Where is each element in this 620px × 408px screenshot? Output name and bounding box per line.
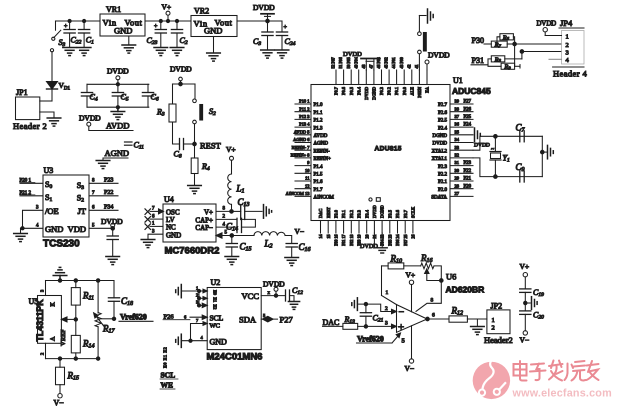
svg-text:P2.0: P2.0 — [438, 188, 448, 193]
watermark glyph 3 — [549, 361, 563, 381]
svg-text:42: 42 — [406, 65, 411, 69]
svg-text:1: 1 — [152, 222, 155, 227]
svg-text:DVDD: DVDD — [372, 205, 377, 218]
capacitor C12 — [286, 286, 304, 302]
svg-text:DVDD: DVDD — [263, 279, 285, 288]
svg-text:4: 4 — [566, 57, 570, 64]
resistor R10 — [382, 254, 421, 269]
sideways ground at op-amp pin2 — [352, 298, 358, 311]
svg-text:JP1: JP1 — [16, 88, 28, 97]
svg-text:50 P05: 50 P05 — [346, 57, 351, 68]
U5 pin2 stub — [40, 343, 46, 358]
svg-text:WE: WE — [161, 381, 174, 390]
svg-text:2: 2 — [223, 215, 226, 220]
svg-text:P1.5: P1.5 — [314, 173, 324, 178]
svg-text:P20 1: P20 1 — [20, 179, 32, 184]
svg-text:36: 36 — [455, 122, 460, 127]
svg-text:P2.6: P2.6 — [438, 111, 448, 116]
U3 pin6 wire P34 — [89, 205, 118, 211]
svg-text:49 P04: 49 P04 — [353, 57, 358, 68]
svg-text:GND: GND — [45, 224, 63, 234]
wire node to JP4 pin3 — [520, 50, 561, 59]
svg-text:P22: P22 — [464, 169, 472, 174]
svg-text:P0.3: P0.3 — [379, 86, 384, 95]
svg-text:DVDD: DVDD — [428, 51, 450, 60]
svg-text:WC: WC — [210, 323, 220, 330]
ground above U5 rail — [53, 267, 67, 280]
capacitor C7 — [516, 123, 526, 142]
svg-text:V+: V+ — [226, 145, 236, 154]
svg-text:27: 27 — [455, 191, 460, 196]
svg-text:A: A — [51, 336, 57, 341]
wire DVDD rail to R3 and S2 — [173, 84, 196, 104]
svg-text:V+: V+ — [406, 271, 416, 280]
svg-text:P37 25: P37 25 — [403, 235, 408, 246]
svg-text:8: 8 — [223, 207, 226, 212]
capacitor C14 with loop CAP+ CAP- — [216, 215, 255, 233]
svg-text:SDA: SDA — [239, 314, 257, 324]
svg-text:P1.0: P1.0 — [314, 103, 324, 108]
svg-text:P32 18: P32 18 — [349, 235, 354, 246]
svg-text:P11 2: P11 2 — [299, 106, 309, 111]
capacitor C5 — [112, 84, 129, 107]
svg-text:XTAL2: XTAL2 — [432, 149, 448, 154]
svg-text:8: 8 — [431, 298, 434, 304]
svg-text:2: 2 — [566, 42, 569, 49]
svg-text:CAP−: CAP− — [195, 224, 213, 232]
ground below U3 VDD cap — [106, 257, 120, 265]
svg-text:35: 35 — [455, 129, 460, 134]
svg-text:2: 2 — [492, 324, 495, 331]
svg-text:U4: U4 — [164, 195, 174, 204]
net label DVDD below U1 — [360, 233, 378, 250]
wire XTAL1 to crystal rail — [473, 158, 542, 179]
capacitor C18 — [98, 281, 133, 319]
svg-text:P21: P21 — [464, 177, 472, 182]
svg-text:DAC: DAC — [318, 209, 323, 218]
svg-text:DVDD: DVDD — [107, 67, 129, 76]
capacitor C15 — [226, 236, 251, 257]
svg-text:DVDD: DVDD — [343, 51, 362, 58]
ground at U3 — [14, 234, 28, 242]
svg-text:P2.3: P2.3 — [438, 165, 448, 170]
svg-text:51 P06: 51 P06 — [338, 57, 343, 68]
svg-text:SCLK: SCLK — [411, 206, 416, 218]
svg-text:3: 3 — [385, 321, 388, 327]
U3 pin3 wire /OE — [23, 206, 44, 229]
capacitor C22 — [64, 19, 82, 47]
svg-text:P10 1: P10 1 — [299, 99, 309, 104]
watermark glyph 4 — [565, 361, 586, 381]
svg-text:P30: P30 — [472, 36, 484, 45]
svg-text:V−: V− — [520, 336, 530, 345]
svg-text:P0.2: P0.2 — [387, 87, 392, 95]
svg-text:4: 4 — [201, 335, 204, 340]
svg-text:P20: P20 — [464, 184, 472, 189]
svg-text:GND: GND — [210, 338, 228, 347]
svg-text:P27: P27 — [280, 315, 293, 325]
U6 pin1 wire — [382, 266, 397, 305]
svg-text:6: 6 — [152, 214, 155, 219]
svg-text:P2.1: P2.1 — [438, 180, 448, 185]
U4 pin7 OSC with no-connect cross — [145, 207, 164, 215]
svg-text:3: 3 — [40, 289, 45, 292]
svg-text:P1.6: P1.6 — [314, 180, 324, 185]
svg-text:E0 E1 E2: E0 E1 E2 — [163, 347, 168, 368]
capacitor C16 — [286, 242, 310, 258]
svg-text:C18: C18 — [121, 296, 133, 307]
svg-text:26: 26 — [411, 235, 416, 239]
U5 VREF pin — [60, 317, 76, 346]
svg-text:VDD: VDD — [68, 224, 86, 234]
svg-text:P3.4: P3.4 — [364, 209, 369, 218]
svg-text:PSEN: PSEN — [417, 86, 422, 98]
svg-text:U1: U1 — [453, 76, 463, 85]
watermark glyph 1 — [514, 361, 527, 381]
svg-text:C6: C6 — [151, 93, 159, 103]
svg-text:C4: C4 — [90, 93, 98, 103]
regulator VR1 — [100, 5, 145, 36]
svg-text:12: 12 — [305, 183, 310, 188]
resistor R13 — [343, 315, 397, 329]
svg-text:3: 3 — [152, 229, 155, 234]
svg-text:P30 16: P30 16 — [334, 235, 339, 246]
power DVDD node above R3 S2 — [170, 65, 192, 86]
ground below U1 — [377, 233, 387, 253]
svg-text:DVDD: DVDD — [79, 114, 101, 123]
U1 bottom pins — [318, 205, 415, 245]
wire XTAL2 to crystal rail — [473, 135, 542, 151]
svg-text:C20: C20 — [533, 311, 544, 321]
svg-text:32: 32 — [455, 153, 460, 158]
svg-text:K: K — [51, 302, 57, 307]
inductor L2 — [232, 232, 285, 250]
svg-text:P1.2: P1.2 — [314, 119, 324, 124]
ground below C24 — [275, 50, 289, 58]
svg-text:REST: REST — [200, 141, 222, 151]
resistor R7 — [491, 41, 516, 49]
U3 pin1 wire P20 — [20, 179, 44, 184]
svg-text:Y1: Y1 — [503, 154, 510, 164]
svg-text:P26: P26 — [164, 313, 175, 320]
svg-text:R16: R16 — [420, 253, 433, 264]
wire U5 bottom rail — [46, 357, 100, 360]
U5 pin3 stub — [40, 281, 46, 296]
capacitor C1 — [79, 19, 95, 47]
svg-text:15: 15 — [326, 235, 331, 239]
svg-text:DVDD: DVDD — [433, 142, 448, 147]
ground below C3 — [261, 50, 275, 58]
svg-text:2: 2 — [40, 353, 45, 355]
svg-text:DGND: DGND — [380, 205, 385, 218]
svg-text:DVDD: DVDD — [537, 21, 557, 28]
ground at AGND — [96, 161, 110, 169]
svg-text:ADU815: ADU815 — [375, 146, 402, 153]
wire input rail to VR1 — [56, 20, 101, 22]
svg-text:P2.5: P2.5 — [438, 119, 448, 124]
connector JP4 — [553, 18, 588, 79]
svg-text:GND: GND — [114, 26, 132, 36]
ground at U4 — [141, 240, 155, 248]
svg-text:6: 6 — [432, 313, 435, 319]
svg-text:C15: C15 — [240, 242, 252, 253]
resistor R3 — [156, 104, 176, 122]
ground below C12 — [288, 302, 299, 310]
svg-text:E2: E2 — [213, 304, 218, 309]
svg-text:R8: R8 — [494, 56, 502, 63]
svg-text:P25: P25 — [464, 115, 472, 120]
svg-text:R15: R15 — [67, 371, 80, 382]
wire JP1 pin1 — [40, 100, 52, 102]
svg-text:10: 10 — [305, 168, 310, 173]
ground below C2 — [170, 48, 184, 56]
svg-text:AVDD: AVDD — [106, 121, 129, 131]
sideways ground at C19 C20 — [532, 297, 538, 310]
svg-text:P1.3: P1.3 — [314, 126, 324, 131]
ground below C15 — [225, 257, 239, 265]
U2 pin7 WC wire — [191, 318, 208, 341]
svg-text:R17: R17 — [102, 324, 116, 335]
svg-text:P0.7: P0.7 — [334, 86, 339, 95]
svg-text:7: 7 — [196, 318, 199, 323]
svg-text:C22: C22 — [71, 36, 82, 46]
svg-text:S3: S3 — [77, 181, 84, 191]
potentiometer R16 — [420, 253, 441, 281]
U4 pin1 NC with no-connect cross — [145, 222, 163, 230]
svg-text:43 P00: 43 P00 — [399, 57, 404, 68]
ground below VR1 — [122, 45, 136, 53]
svg-text:TCS230: TCS230 — [43, 239, 80, 250]
svg-text:REFIN-: REFIN- — [314, 149, 330, 154]
wire cap bank rails — [87, 83, 149, 109]
svg-text:C21: C21 — [373, 314, 384, 324]
crystal Y1 — [490, 136, 510, 176]
wire P30 node down — [514, 44, 516, 66]
capacitor C11 — [125, 141, 145, 151]
svg-text:P1.1: P1.1 — [314, 111, 324, 116]
svg-text:AGND 6: AGND 6 — [293, 137, 310, 142]
svg-text:P3.7: P3.7 — [403, 209, 408, 218]
sideways ground at U2 pin4 — [176, 334, 182, 347]
svg-text:VCC: VCC — [242, 291, 260, 301]
resistor R14 — [71, 319, 94, 358]
svg-text:JT: JT — [78, 206, 87, 216]
svg-text:C8: C8 — [174, 150, 182, 160]
chip U3 TCS230 — [43, 166, 89, 250]
net label V- — [285, 227, 304, 244]
svg-text:14: 14 — [318, 235, 323, 239]
net label SCL — [160, 371, 178, 380]
svg-text:C2: C2 — [180, 36, 188, 46]
resistor R15 — [56, 359, 80, 394]
svg-text:EA: EA — [425, 86, 430, 93]
power DVDD node at EA pin — [425, 51, 450, 71]
svg-text:GND: GND — [166, 232, 181, 240]
svg-text:P0.1: P0.1 — [394, 87, 399, 95]
ground below C22 — [63, 48, 77, 56]
svg-text:C12: C12 — [292, 286, 303, 296]
ground below C5 — [111, 107, 125, 119]
svg-text:P0.6: P0.6 — [341, 86, 346, 95]
svg-text:AD620BR: AD620BR — [446, 285, 485, 295]
U4 pin6 LV with no-connect cross — [145, 214, 163, 222]
svg-text:S2: S2 — [209, 107, 216, 117]
resistor R4 — [191, 144, 210, 186]
svg-text:L1: L1 — [236, 184, 245, 195]
svg-text:U3: U3 — [44, 166, 54, 175]
node V+ at C19 — [520, 262, 530, 289]
capacitor at U3 VDD — [107, 228, 118, 256]
capacitor C8 — [174, 139, 195, 160]
diode VD1 — [47, 81, 71, 101]
svg-text:1: 1 — [566, 34, 569, 41]
U3 pin4 wire GND — [21, 224, 44, 234]
svg-text:3: 3 — [566, 49, 569, 56]
U1 right pins 27-39 — [431, 99, 473, 201]
svg-text:P0.5: P0.5 — [349, 86, 354, 95]
svg-text:P21 2: P21 2 — [20, 191, 32, 196]
svg-text:www.elecfans.com: www.elecfans.com — [512, 388, 612, 400]
ground below C23 — [154, 48, 168, 56]
svg-text:C16: C16 — [299, 242, 311, 253]
resistor R12 — [449, 306, 487, 323]
svg-text:V+: V+ — [520, 262, 530, 271]
svg-text:1: 1 — [492, 317, 495, 324]
capacitor C19 — [520, 288, 544, 311]
svg-text:P34: P34 — [104, 205, 113, 211]
ground right of C13 — [264, 205, 272, 219]
svg-text:P0.0: P0.0 — [402, 86, 407, 95]
svg-text:P22: P22 — [104, 190, 113, 196]
chip U2 M24C01MN6 — [207, 278, 263, 363]
svg-text:MC7660DR2: MC7660DR2 — [165, 246, 220, 257]
node V+ above L1 — [226, 145, 236, 174]
node V+ above op-amp — [406, 271, 416, 312]
U6 labels — [446, 272, 485, 295]
svg-text:DVDD: DVDD — [474, 143, 490, 149]
svg-text:TL4311PK: TL4311PK — [35, 299, 45, 342]
svg-text:Header2: Header2 — [484, 335, 513, 345]
ground below C1 — [77, 48, 91, 56]
svg-text:P26: P26 — [464, 107, 472, 112]
U3 pin8 wire P23 — [89, 178, 118, 184]
svg-text:C19: C19 — [533, 288, 544, 298]
wire R16 to pin8 — [416, 266, 443, 312]
watermark glyph 5 — [587, 361, 599, 380]
switch S1 at U1 top right — [418, 16, 427, 71]
svg-text:S0: S0 — [45, 180, 52, 190]
wire JP4 pin1 — [545, 35, 561, 37]
svg-text:29: 29 — [455, 176, 460, 181]
svg-text:SCL: SCL — [210, 314, 224, 323]
capacitor C3 — [253, 21, 273, 50]
svg-text:DVDD: DVDD — [101, 217, 123, 226]
sideways ground at U1 pin35 DGND — [475, 128, 481, 142]
power DVDD node — [253, 3, 275, 23]
svg-text:VR1: VR1 — [106, 5, 121, 14]
svg-text:+: + — [398, 322, 404, 334]
svg-text:DGND: DGND — [372, 87, 377, 100]
svg-text:AGND: AGND — [314, 142, 329, 147]
wire VR1 GND — [128, 36, 130, 45]
svg-text:VD1: VD1 — [59, 81, 71, 92]
svg-text:XTAL1: XTAL1 — [432, 157, 448, 162]
sideways ground right of crystal — [548, 145, 554, 158]
svg-text:P3.1: P3.1 — [341, 210, 346, 218]
U3 pin2 wire P21 — [20, 191, 44, 196]
svg-text:DVDD: DVDD — [170, 65, 192, 74]
ground between R12 and JP2 — [471, 319, 485, 335]
svg-text:7: 7 — [152, 207, 155, 212]
wire VR2 GND — [213, 37, 215, 54]
svg-text:REFIN+: REFIN+ — [314, 157, 331, 162]
net label P26 to pin6 — [163, 313, 207, 320]
svg-text:P1.4: P1.4 — [314, 165, 324, 170]
svg-text:44 P01: 44 P01 — [391, 57, 396, 68]
svg-text:P2.4: P2.4 — [438, 126, 448, 131]
switch S3 — [50, 21, 65, 52]
ground below C16 — [285, 258, 299, 266]
svg-text:6: 6 — [184, 314, 187, 319]
svg-text:+: + — [284, 25, 288, 31]
potentiometer R17 — [94, 281, 116, 359]
svg-text:R10: R10 — [390, 254, 403, 265]
net label P31 — [471, 56, 488, 65]
svg-text:NC: NC — [166, 224, 176, 232]
svg-text:C5: C5 — [121, 93, 129, 103]
svg-text:DVDD: DVDD — [253, 3, 275, 12]
node L1 C13 junction — [230, 210, 234, 214]
svg-text:P35 23: P35 23 — [387, 235, 392, 246]
capacitor C24 — [276, 21, 295, 50]
svg-text:/OE: /OE — [45, 206, 59, 216]
svg-text:DVDD: DVDD — [360, 243, 378, 250]
wire crystal right leg — [541, 136, 547, 176]
U2 SDA wire to P27 — [261, 313, 293, 325]
svg-text:33: 33 — [455, 145, 460, 150]
net label DAC — [323, 318, 343, 327]
svg-text:VR2: VR2 — [194, 7, 209, 16]
svg-text:C3: C3 — [253, 37, 261, 47]
svg-text:DVDD: DVDD — [364, 87, 369, 100]
svg-text:P1.7: P1.7 — [314, 188, 324, 193]
svg-text:−: − — [399, 307, 405, 318]
svg-text:L2: L2 — [264, 239, 273, 250]
wire VR1 to VR2 — [145, 20, 191, 22]
capacitor C2 — [171, 19, 187, 47]
wire R3 to C8 — [173, 122, 180, 144]
power DVDD node to AVDD — [79, 114, 133, 131]
svg-text:11: 11 — [305, 176, 309, 181]
resistor R6 — [497, 34, 515, 44]
elecfans watermark logo — [473, 359, 510, 400]
svg-text:P31: P31 — [472, 56, 484, 65]
svg-text:31: 31 — [455, 160, 460, 165]
capacitor C6 — [142, 84, 158, 107]
U3 pin7 wire P22 — [89, 190, 118, 196]
connector JP2 — [484, 301, 513, 345]
wire and sideways ground cap at top — [419, 9, 433, 23]
wire ground to pin2 — [359, 302, 397, 313]
svg-text:S3: S3 — [59, 38, 66, 48]
svg-text:P36 24: P36 24 — [395, 235, 400, 246]
capacitor C13 — [232, 197, 263, 220]
svg-text:20: 20 — [364, 235, 369, 239]
svg-text:Header 4: Header 4 — [553, 69, 587, 79]
wire P30 node to JP4 pin2 — [515, 43, 562, 45]
svg-text:V+: V+ — [204, 209, 213, 217]
capacitor C9 — [516, 162, 525, 182]
